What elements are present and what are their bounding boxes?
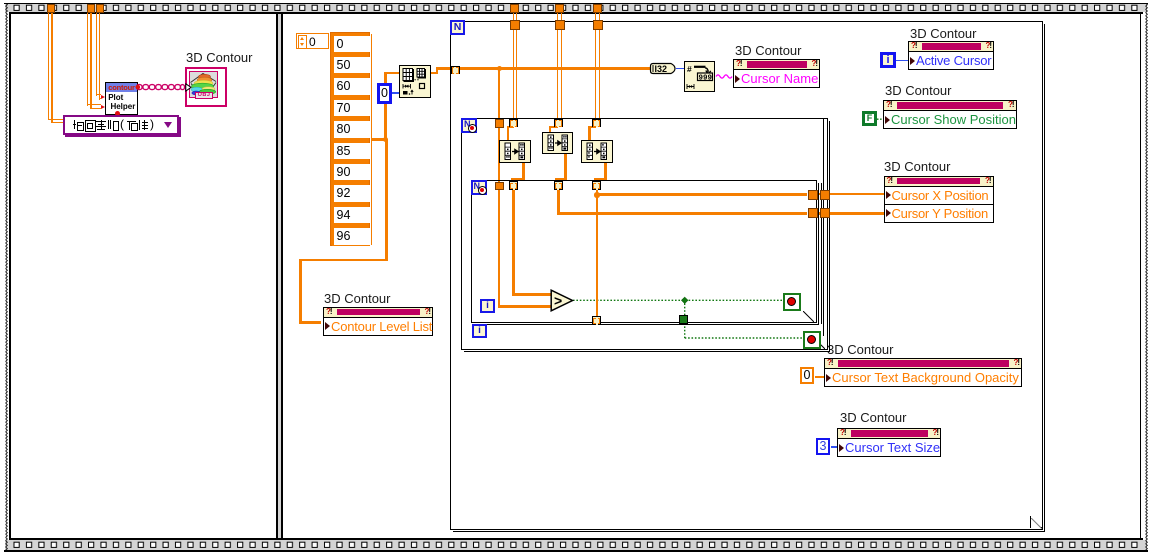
svg-text:>: > — [554, 293, 562, 309]
svg-text:#: # — [687, 64, 692, 74]
svg-text:999: 999 — [699, 75, 713, 83]
svg-text:I32: I32 — [655, 64, 668, 74]
